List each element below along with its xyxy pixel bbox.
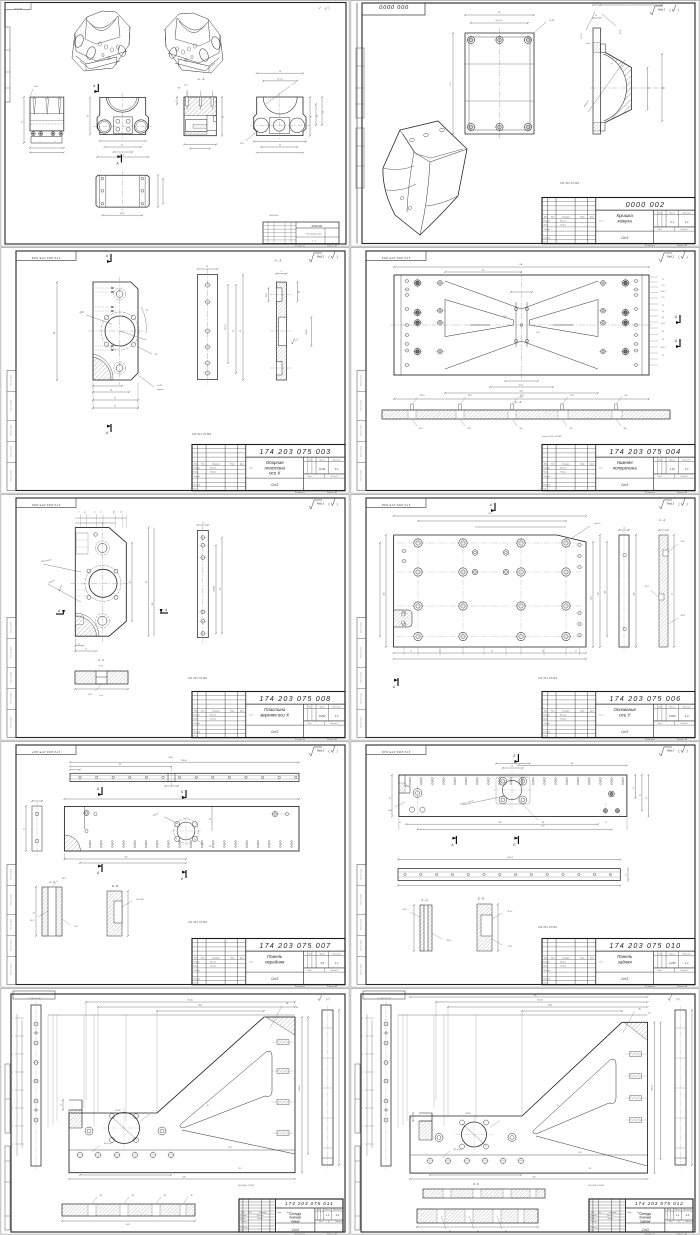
svg-text:Дата: Дата [590,957,594,959]
svg-text:Лит.: Лит. [658,212,662,214]
svg-text:№ докум.: № докум. [212,709,220,712]
svg-text:Ø7: Ø7 [191,1195,193,1197]
svg-text:Масштаб: Масштаб [683,706,691,708]
svg-text:Подп.: Подп. [230,957,235,959]
svg-text:01.10: 01.10 [599,962,603,964]
svg-text:М8: М8 [468,428,471,430]
svg-text:2,168: 2,168 [668,961,676,965]
svg-text:Инв. № подп: Инв. № подп [360,672,363,683]
svg-text:Инв. № подп: Инв. № подп [360,425,363,436]
svg-text:Иванов: Иванов [210,715,216,717]
svg-text:Листов 1: Листов 1 [680,723,688,725]
svg-text:23,1: 23,1 [10,1018,13,1020]
svg-text:300: 300 [383,593,385,596]
svg-text:630: 630 [183,1177,186,1179]
svg-text:1,1: 1,1 [676,1213,680,1217]
svg-text:Подп.: Подп. [580,216,585,218]
svg-text:710-0,3: 710-0,3 [181,760,187,762]
svg-text:Лит.: Лит. [317,1209,321,1211]
svg-text:82: 82 [130,581,132,583]
svg-text:58: 58 [491,651,493,653]
svg-text:319: 319 [239,1168,242,1170]
svg-text:А: А [164,608,167,612]
svg-text:174 203 075 003: 174 203 075 003 [32,256,61,260]
svg-text:Утв.: Утв. [544,983,548,985]
svg-text:): ) [336,255,337,259]
svg-text:Б - Б: Б - Б [112,884,118,888]
svg-text:10: 10 [61,1104,63,1106]
svg-text:20: 20 [110,390,112,392]
svg-text:передняя: передняя [265,959,285,964]
svg-text:45°: 45° [145,310,148,312]
svg-text:Ø8: Ø8 [299,291,301,293]
svg-text:174 203 075 007: 174 203 075 007 [32,750,61,754]
svg-text:Инв. № подп: Инв. № подп [360,940,363,951]
svg-text:Инв. № подп: Инв. № подп [360,964,363,975]
svg-text:Н.контр.: Н.контр. [544,484,551,486]
svg-text:15: 15 [399,822,401,824]
svg-text:А - А: А - А [420,898,427,902]
svg-text:25: 25 [410,651,412,653]
svg-text:23,1: 23,1 [360,1054,363,1056]
svg-text:41: 41 [633,787,635,789]
svg-text:Листов 1: Листов 1 [680,229,688,231]
svg-text:Ø7: Ø7 [477,1231,479,1233]
svg-text:По перекл. осей: По перекл. осей [306,233,322,236]
svg-text:Лист: Лист [551,957,555,959]
svg-text:Ст3: Ст3 [621,236,628,240]
svg-text:Лист: Лист [658,476,662,478]
svg-text:Инв. № подп: Инв. № подп [360,622,363,633]
svg-text:450: 450 [519,391,522,393]
svg-text:Утв.: Утв. [544,736,548,738]
svg-text:Т.контр.: Т.контр. [544,970,551,972]
svg-text:50±0,1: 50±0,1 [660,291,665,293]
svg-text:Лит.: Лит. [658,706,662,708]
svg-text:Разраб.: Разраб. [544,715,551,717]
svg-text:Ст3: Ст3 [271,977,278,981]
svg-text:15: 15 [662,355,664,357]
svg-text:Ø45Н7: Ø45Н7 [306,329,308,334]
svg-text:1,25: 1,25 [661,285,664,287]
svg-text:Инв. № подп: Инв. № подп [10,375,13,386]
svg-text:23,1: 23,1 [10,1126,13,1128]
svg-text:Иванов: Иванов [210,468,216,470]
svg-text:Пров.: Пров. [544,719,549,721]
svg-text:А - А: А - А [274,258,282,262]
svg-text:): ) [686,749,687,753]
svg-text:Ra6,3: Ra6,3 [667,749,674,753]
svg-text:Пров.: Пров. [194,719,199,721]
svg-text:Масштаб: Масштаб [683,1209,691,1211]
svg-text:h14, Н14, ±IT14/2: h14, Н14, ±IT14/2 [588,1184,605,1187]
svg-text:Инв. № подп: Инв. № подп [10,446,13,457]
svg-text:Инв. № подп: Инв. № подп [360,919,363,930]
svg-text:Листов 1: Листов 1 [335,1221,343,1223]
svg-text:4: 4 [175,100,177,101]
svg-text:1:2: 1:2 [336,1213,340,1217]
svg-text:Ø7: Ø7 [164,1195,166,1197]
svg-text:01.10: 01.10 [599,468,603,470]
svg-text:Разраб.: Разраб. [194,962,201,964]
svg-text:Лист: Лист [598,1212,602,1214]
svg-text:А - А: А - А [97,658,104,662]
svg-text:23,1: 23,1 [360,1126,363,1128]
svg-text:Дата: Дата [240,463,244,465]
svg-text:30: 30 [85,649,87,651]
svg-text:R3: R3 [155,354,157,356]
svg-text:Ø6: Ø6 [570,428,572,430]
svg-text:Ra6,3: Ra6,3 [317,502,324,506]
svg-text:Масштаб: Масштаб [333,953,341,955]
svg-text:Ø7: Ø7 [100,1195,102,1197]
svg-text:45: 45 [542,651,544,653]
svg-text:Ø 4,2 М5: Ø 4,2 М5 [136,899,143,901]
svg-text:Подп.: Подп. [580,710,585,712]
svg-text:Инв. № подп: Инв. № подп [10,693,13,704]
svg-text:Утв.: Утв. [544,242,548,244]
svg-text:Лит.: Лит. [667,1209,671,1211]
svg-text:178: 178 [152,603,154,606]
svg-text:8,5: 8,5 [662,331,664,333]
svg-text:А: А [115,162,118,166]
svg-text:Инв. № подп: Инв. № подп [360,894,363,905]
svg-text:178-0,1: 178-0,1 [299,1085,301,1091]
svg-text:Масштаб: Масштаб [333,706,341,708]
svg-text:8,4: 8,4 [662,317,664,319]
svg-text:1,1: 1,1 [326,1213,330,1217]
svg-text:Масса: Масса [669,953,676,955]
svg-text:174 203 075 007: 174 203 075 007 [259,941,331,950]
svg-text:Ø 22Н7: Ø 22Н7 [115,1110,121,1112]
svg-text:23,1: 23,1 [10,1090,13,1092]
svg-text:438: 438 [499,822,502,824]
svg-text:88: 88 [146,581,148,583]
svg-text:А: А [92,84,95,88]
svg-text:23,1: 23,1 [10,1144,13,1146]
svg-text:М10: М10 [114,510,116,513]
svg-text:А - А: А - А [197,77,205,81]
svg-text:Ст3: Ст3 [621,730,628,734]
svg-text:65 ±0,2: 65 ±0,2 [496,20,504,22]
svg-text:Петров: Петров [210,719,216,721]
svg-text:Лист: Лист [658,229,662,231]
svg-text:Ø4,2: Ø4,2 [520,395,524,397]
svg-text:92: 92 [390,797,392,799]
svg-text:12: 12 [626,874,628,876]
svg-text:№ докум.: № докум. [562,956,570,959]
svg-text:Инв. № подп: Инв. № подп [360,647,363,658]
svg-text:Ø11: Ø11 [536,332,539,334]
svg-text:Разраб.: Разраб. [194,468,201,470]
svg-text:Ст3: Ст3 [271,483,278,487]
svg-text:Масса: Масса [669,459,676,461]
svg-text:61: 61 [114,406,116,408]
svg-text:Инв. № подп: Инв. № подп [360,717,363,728]
svg-text:0000 002: 0000 002 [626,200,666,209]
svg-text:1,1: 1,1 [670,220,674,224]
svg-text:Н.контр.: Н.контр. [544,237,551,239]
svg-text:38: 38 [323,111,325,113]
svg-text:150,7: 150,7 [228,1147,232,1149]
svg-text:7,5: 7,5 [662,305,664,307]
svg-text:174 203 075 004: 174 203 075 004 [609,447,681,456]
svg-text:Листов 1: Листов 1 [330,970,338,972]
svg-text:319: 319 [589,1168,592,1170]
svg-text:468: 468 [571,763,574,765]
svg-text:Ø 14: Ø 14 [99,666,103,668]
svg-text:Пров.: Пров. [194,472,199,474]
svg-text:Лист: Лист [669,1221,673,1223]
svg-text:Лист: Лист [658,970,662,972]
svg-text:23,1: 23,1 [360,1018,363,1020]
svg-text:Иванов: Иванов [560,962,566,964]
svg-text:Разраб.: Разраб. [591,1215,598,1217]
svg-text:Ст3: Ст3 [621,483,628,487]
svg-text:Листов 1: Листов 1 [330,723,338,725]
svg-text:2 фаски: 2 фаски [594,522,601,525]
svg-text:Дата: Дата [240,710,244,712]
svg-text:9,2: 9,2 [662,311,664,313]
svg-text:38: 38 [223,116,225,118]
svg-text:Ø11: Ø11 [503,316,506,318]
svg-text:Т.контр.: Т.контр. [194,476,201,478]
svg-text:задняя: задняя [617,959,633,964]
svg-text:23,1: 23,1 [360,1090,363,1092]
svg-text:174 203 075 006: 174 203 075 006 [382,503,411,507]
svg-text:Лист: Лист [308,723,312,725]
svg-text:710-0,3: 710-0,3 [507,857,513,859]
svg-text:Петров: Петров [607,1218,613,1220]
svg-text:АО.0010: АО.0010 [13,7,22,10]
svg-text:24: 24 [511,766,513,768]
svg-text:01.10: 01.10 [249,715,253,717]
svg-text:Ra6,3: Ra6,3 [658,8,665,12]
svg-text:150: 150 [598,593,600,596]
svg-text:Н.контр.: Н.контр. [544,978,551,980]
svg-text:Лист: Лист [248,1212,252,1214]
svg-text:Ø10,2: Ø10,2 [681,615,686,617]
svg-text:Ст3: Ст3 [621,977,628,981]
svg-text:Ø6,7: Ø6,7 [419,428,423,430]
svg-text:Б - Б: Б - Б [473,1183,479,1186]
svg-text:(✓): (✓) [676,997,680,1001]
svg-text:174 203 075 006: 174 203 075 006 [609,694,681,703]
svg-text:М6: М6 [542,822,544,824]
svg-text:Т.контр.: Т.контр. [591,1221,598,1223]
svg-text:23,1: 23,1 [10,1054,13,1056]
svg-text:Листов 1: Листов 1 [680,970,688,972]
svg-text:): ) [686,255,687,259]
svg-text:Петров: Петров [210,966,216,968]
svg-text:Петров: Петров [257,1218,263,1220]
svg-text:Ø10,5: Ø10,5 [447,940,452,942]
svg-text:1,41: 1,41 [670,467,676,471]
svg-text:А: А [392,685,395,689]
svg-text:Ø13: Ø13 [240,143,243,145]
svg-text:поперечина: поперечина [613,465,637,470]
svg-text:Ø7 (6 отв.): Ø7 (6 отв.) [454,1149,463,1151]
svg-text:А: А [57,609,60,613]
svg-text:Ø7: Ø7 [449,1231,451,1233]
svg-text:Ø7 (6 отв.): Ø7 (6 отв.) [104,1143,113,1145]
svg-text:Н.контр.: Н.контр. [591,1227,598,1229]
svg-text:174 203 075 003: 174 203 075 003 [259,447,331,456]
svg-text:23,1: 23,1 [10,1036,13,1038]
svg-text:Ø11: Ø11 [74,926,77,928]
svg-text:Ra6,3: Ra6,3 [317,255,324,259]
svg-text:Иванов: Иванов [560,468,566,470]
svg-text:12: 12 [202,523,204,525]
svg-text:№ докум.: № докум. [562,462,570,465]
svg-text:01.10: 01.10 [249,468,253,470]
svg-text:10: 10 [206,266,208,268]
svg-text:Подп.: Подп. [277,1212,282,1214]
svg-text:Подп.: Подп. [230,710,235,712]
svg-text:Н.контр.: Н.контр. [241,1227,248,1229]
svg-text:Ст3: Ст3 [292,1228,299,1232]
svg-text:А - А: А - А [48,880,55,884]
svg-text:630: 630 [533,1177,536,1179]
svg-text:Масса: Масса [319,459,326,461]
svg-text:Лист: Лист [308,476,312,478]
svg-text:14: 14 [595,15,597,17]
svg-text:Масса: Масса [669,212,676,214]
svg-text:315: 315 [482,270,485,272]
svg-text:верхняя оси Х: верхняя оси Х [260,712,290,717]
svg-text:Ø7: Ø7 [132,1195,134,1197]
svg-text:Пров.: Пров. [591,1218,596,1220]
svg-text:58: 58 [279,71,281,73]
svg-text:1:2: 1:2 [685,714,689,718]
svg-text:Н.контр.: Н.контр. [194,731,201,733]
svg-text:Подп.: Подп. [580,957,585,959]
svg-text:Ø6,3: Ø6,3 [388,810,392,812]
svg-text:16: 16 [94,511,96,513]
svg-text:01.10: 01.10 [599,715,603,717]
svg-text:Инв. № подп: Инв. № подп [360,400,363,411]
svg-text:(✓): (✓) [326,997,330,1001]
svg-text:Масса: Масса [319,706,326,708]
svg-text:268,5: 268,5 [198,1005,202,1007]
svg-text:): ) [336,749,337,753]
svg-text:355: 355 [119,764,122,766]
svg-text:36 ±0,2: 36 ±0,2 [277,79,283,81]
svg-text:Ø10: Ø10 [88,694,91,696]
svg-text:1:1: 1:1 [335,961,339,965]
svg-text:Разраб.: Разраб. [194,715,201,717]
svg-text:93-0,1: 93-0,1 [591,596,593,601]
svg-text:47±0,1: 47±0,1 [660,347,665,349]
svg-text:Инв. № подп: Инв. № подп [10,940,13,951]
svg-text:Утв.: Утв. [194,489,198,491]
svg-text:А: А [489,503,492,507]
svg-text:Инв. № подп: Инв. № подп [10,400,13,411]
svg-text:Лист: Лист [201,710,205,712]
svg-text:Ra6,3: Ra6,3 [667,502,674,506]
svg-text:Лит.: Лит. [308,459,312,461]
svg-text:Дата: Дата [590,216,594,218]
svg-text:Масштаб: Масштаб [683,459,691,461]
svg-text:Подп.: Подп. [627,1212,632,1214]
svg-text:545: 545 [488,513,491,515]
svg-text:150,7: 150,7 [578,1152,582,1154]
svg-text:Лит.: Лит. [308,953,312,955]
svg-text:2,6: 2,6 [319,961,324,965]
svg-text:2×45°: 2×45° [549,19,555,22]
svg-text:01.10: 01.10 [646,1215,650,1217]
svg-text:Лист: Лист [201,463,205,465]
svg-text:№ докум.: № докум. [212,956,220,959]
svg-text:Ст3: Ст3 [271,730,278,734]
svg-text:23,1: 23,1 [360,1108,363,1110]
svg-text:10: 10 [411,1117,413,1119]
svg-text:Иванов: Иванов [560,715,566,717]
svg-text:162: 162 [220,588,222,591]
svg-text:0,141: 0,141 [319,467,326,471]
svg-text:Б: Б [181,790,183,794]
svg-text:38: 38 [121,511,123,513]
svg-text:300: 300 [634,593,636,596]
svg-text:23,1: 23,1 [360,1072,363,1074]
svg-text:01.10: 01.10 [296,1215,300,1217]
svg-text:Инв. № подп: Инв. № подп [10,894,13,905]
svg-text:98: 98 [34,912,36,914]
svg-text:Масса: Масса [319,953,326,955]
svg-text:56: 56 [22,121,24,123]
svg-text:Подп.: Подп. [580,463,585,465]
svg-text:М6: М6 [638,1008,640,1010]
svg-text:№ докум.: № докум. [562,215,570,218]
svg-text:Ra6,3: Ra6,3 [317,749,324,753]
svg-text:38: 38 [88,115,90,117]
svg-text:Инв. № подп: Инв. № подп [360,869,363,880]
svg-text:1:1: 1:1 [685,961,689,965]
svg-text:45: 45 [24,828,26,830]
svg-text:Инв. № подп: Инв. № подп [10,964,13,975]
svg-text:Б - Б: Б - Б [478,897,484,901]
svg-text:92: 92 [646,797,648,799]
svg-text:Масштаб: Масштаб [683,953,691,955]
svg-text:Ø6,2: Ø6,2 [403,909,407,911]
svg-text:2 отв: 2 отв [99,695,103,697]
svg-text:Разраб.: Разраб. [544,221,551,223]
svg-text:174 203 075 004: 174 203 075 004 [382,256,411,260]
svg-text:000 0000: 000 0000 [379,3,409,9]
svg-text:Ø12: Ø12 [508,946,511,948]
svg-text:5: 5 [597,24,598,26]
svg-text:Петров: Петров [210,472,216,474]
svg-text:45°: 45° [207,1105,210,1107]
svg-text:3 отв.: 3 отв. [184,85,189,87]
svg-text:Т.контр.: Т.контр. [194,723,201,725]
svg-text:Инв. № подп: Инв. № подп [360,375,363,386]
svg-text:№ докум.: № докум. [562,709,570,712]
svg-text:Ø 22Н7: Ø 22Н7 [465,1113,471,1115]
svg-text:Ст3: Ст3 [642,1228,649,1232]
svg-text:Петров: Петров [560,966,566,968]
svg-text:Пров.: Пров. [544,966,549,968]
svg-text:Петров: Петров [560,472,566,474]
svg-text:М6: М6 [178,88,181,90]
svg-text:23,1: 23,1 [10,1072,13,1074]
svg-text:А - А: А - А [658,518,665,522]
svg-text:Лист: Лист [658,723,662,725]
svg-text:Масштаб: Масштаб [333,1209,341,1211]
svg-text:101,5: 101,5 [519,385,524,387]
svg-text:Лит.: Лит. [658,953,662,955]
svg-text:h14, Н14, ±IT14/2: h14, Н14, ±IT14/2 [192,433,212,436]
